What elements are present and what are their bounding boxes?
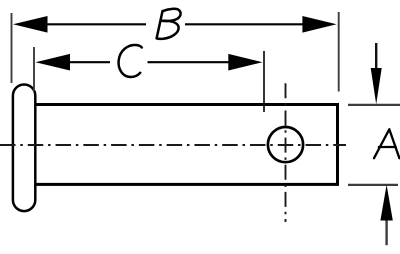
pin head	[13, 85, 35, 212]
A up arrowhead	[380, 185, 392, 221]
A bottom extension line	[348, 184, 398, 186]
A down arrow stem	[375, 43, 377, 70]
dimension C line	[64, 61, 234, 63]
dimension C left arrowhead	[36, 54, 71, 71]
label B	[157, 9, 181, 39]
C left extension line	[33, 47, 35, 91]
dimension B line	[40, 23, 310, 25]
hole	[268, 127, 303, 162]
dimension B right arrowhead	[302, 16, 336, 33]
B left extension line	[11, 13, 13, 83]
label A	[374, 129, 399, 158]
dimension B left arrowhead	[13, 16, 48, 33]
A down arrowhead	[371, 68, 382, 104]
label C	[119, 45, 142, 77]
C right extension line	[263, 51, 265, 112]
A up arrow stem	[385, 219, 387, 245]
B right extension line	[338, 12, 340, 92]
pin body	[35, 105, 338, 185]
A top extension line	[348, 104, 400, 106]
horizontal centerline	[0, 144, 346, 146]
vertical centerline	[285, 83, 287, 222]
dimension C right arrowhead	[228, 54, 262, 71]
